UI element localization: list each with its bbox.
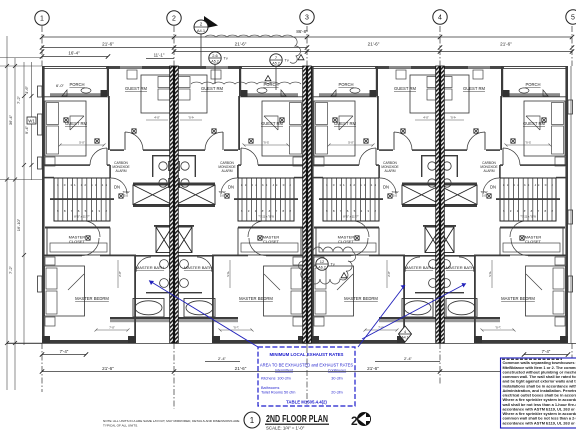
svg-text:MASTER BATH: MASTER BATH (446, 265, 474, 270)
svg-text:2ND FLOOR PLAN: 2ND FLOOR PLAN (266, 414, 328, 425)
svg-text:ALARM: ALARM (222, 169, 233, 173)
svg-text:2: 2 (351, 414, 358, 428)
svg-text:MASTER BEDRM: MASTER BEDRM (501, 296, 535, 301)
svg-text:7'-4": 7'-4" (60, 349, 69, 354)
svg-text:GUEST RM: GUEST RM (261, 121, 284, 126)
svg-text:Tv: Tv (285, 59, 289, 63)
svg-text:Bathrooms: Bathrooms (261, 386, 279, 390)
svg-text:A4.1: A4.1 (197, 28, 206, 33)
svg-text:2'-4": 2'-4" (218, 356, 227, 361)
svg-text:GUEST RM: GUEST RM (125, 86, 148, 91)
svg-text:DN: DN (114, 185, 120, 190)
svg-text:20 cfm: 20 cfm (331, 391, 342, 395)
svg-text:100 cfm: 100 cfm (277, 377, 291, 381)
svg-text:2'-4": 2'-4" (404, 356, 413, 361)
svg-text:16'-4": 16'-4" (68, 51, 80, 56)
svg-text:Continuous: Continuous (328, 369, 346, 373)
svg-text:21'-6": 21'-6" (367, 366, 379, 371)
svg-text:MINIMUM LOCAL EXHAUST RATES: MINIMUM LOCAL EXHAUST RATES (270, 352, 344, 357)
svg-text:MASTER BEDRM: MASTER BEDRM (239, 296, 273, 301)
svg-text:5.0: 5.0 (393, 194, 398, 198)
svg-text:2: 2 (172, 15, 176, 22)
svg-text:1: 1 (250, 416, 255, 425)
svg-text:A6.2: A6.2 (318, 266, 325, 270)
svg-text:86'-8": 86'-8" (296, 29, 308, 34)
svg-text:A5.2: A5.2 (211, 60, 218, 64)
svg-text:MASTER BATH: MASTER BATH (405, 265, 433, 270)
svg-text:ALARM: ALARM (385, 169, 396, 173)
svg-text:CLOSET: CLOSET (338, 239, 355, 244)
svg-text:A5.2: A5.2 (272, 62, 279, 66)
svg-text:TYPICAL OF ALL UNITS.: TYPICAL OF ALL UNITS. (103, 424, 138, 428)
svg-text:5.0: 5.0 (124, 194, 129, 198)
svg-text:GUEST RM: GUEST RM (523, 121, 546, 126)
svg-text:12: 12 (320, 259, 325, 264)
svg-text:W1: W1 (28, 118, 35, 123)
svg-text:36'-4": 36'-4" (8, 114, 13, 125)
svg-text:3: 3 (305, 14, 309, 21)
svg-text:21'-6": 21'-6" (102, 42, 114, 47)
svg-text:PORCH: PORCH (525, 82, 540, 87)
svg-text:SCALE: 1/4" = 1'-0": SCALE: 1/4" = 1'-0" (266, 425, 305, 430)
svg-text:2.6: 2.6 (212, 53, 218, 58)
svg-text:1: 1 (40, 15, 44, 22)
svg-text:5.0: 5.0 (482, 194, 487, 198)
svg-text:Tv: Tv (224, 57, 228, 61)
svg-text:NOTE: ALL UNITS IN A ARE SAME: NOTE: ALL UNITS IN A ARE SAME LAYOUT, MA… (103, 419, 240, 423)
svg-text:4: 4 (438, 14, 442, 21)
svg-text:A4.1: A4.1 (402, 336, 409, 340)
svg-text:21'-6": 21'-6" (102, 366, 114, 371)
svg-text:MASTER BEDRM: MASTER BEDRM (75, 296, 109, 301)
svg-text:Tv: Tv (331, 263, 335, 267)
svg-text:ALARM: ALARM (116, 169, 127, 173)
svg-text:GUEST RM: GUEST RM (394, 86, 417, 91)
svg-text:30 cfm: 30 cfm (331, 377, 342, 381)
svg-text:CLOSET: CLOSET (69, 239, 86, 244)
svg-text:accordance with ASTM E119, UL: accordance with ASTM E119, UL 263 or c (503, 420, 576, 425)
svg-text:5: 5 (571, 14, 575, 21)
svg-text:6'-0": 6'-0" (56, 83, 65, 88)
svg-text:16'-10": 16'-10" (16, 218, 21, 231)
svg-text:PORCH: PORCH (338, 82, 353, 87)
svg-text:5.0: 5.0 (220, 194, 225, 198)
svg-text:21'-6": 21'-6" (235, 42, 247, 47)
svg-text:4'-6": 4'-6" (24, 85, 29, 94)
svg-text:AREA TO BE EXHAUSTED and EXHA: AREA TO BE EXHAUSTED and EXHAUST RATES (260, 363, 353, 368)
svg-text:ALARM: ALARM (484, 169, 495, 173)
svg-text:Intermittent: Intermittent (275, 369, 293, 373)
svg-text:7'-2": 7'-2" (8, 265, 13, 274)
svg-text:GUEST RM: GUEST RM (65, 121, 88, 126)
svg-text:MASTER BEDRM: MASTER BEDRM (344, 296, 378, 301)
svg-text:GUEST RM: GUEST RM (334, 121, 357, 126)
svg-text:9'-4": 9'-4" (24, 125, 29, 134)
svg-text:GUEST RM: GUEST RM (463, 86, 486, 91)
svg-text:MASTER BATH: MASTER BATH (136, 265, 164, 270)
svg-text:PORCH: PORCH (69, 82, 84, 87)
svg-text:21'-6": 21'-6" (368, 42, 380, 47)
svg-text:Kitchens: Kitchens (261, 377, 276, 381)
svg-text:DN: DN (383, 185, 389, 190)
svg-text:21'-6": 21'-6" (500, 42, 512, 47)
svg-text:MASTER BATH: MASTER BATH (184, 265, 212, 270)
svg-text:GUEST RM: GUEST RM (201, 86, 224, 91)
svg-text:4: 4 (404, 330, 406, 334)
svg-text:21'-6": 21'-6" (235, 366, 247, 371)
svg-text:7'-4": 7'-4" (542, 349, 551, 354)
svg-text:11'-1": 11'-1" (154, 53, 165, 58)
svg-text:Toilet Rooms 50 cfm: Toilet Rooms 50 cfm (261, 391, 295, 395)
svg-text:CLOSET: CLOSET (525, 239, 542, 244)
svg-text:DN: DN (490, 185, 496, 190)
svg-text:DN: DN (228, 185, 234, 190)
svg-text:7'-2": 7'-2" (16, 95, 21, 104)
svg-text:CLOSET: CLOSET (263, 239, 280, 244)
svg-text:2: 2 (200, 22, 203, 27)
